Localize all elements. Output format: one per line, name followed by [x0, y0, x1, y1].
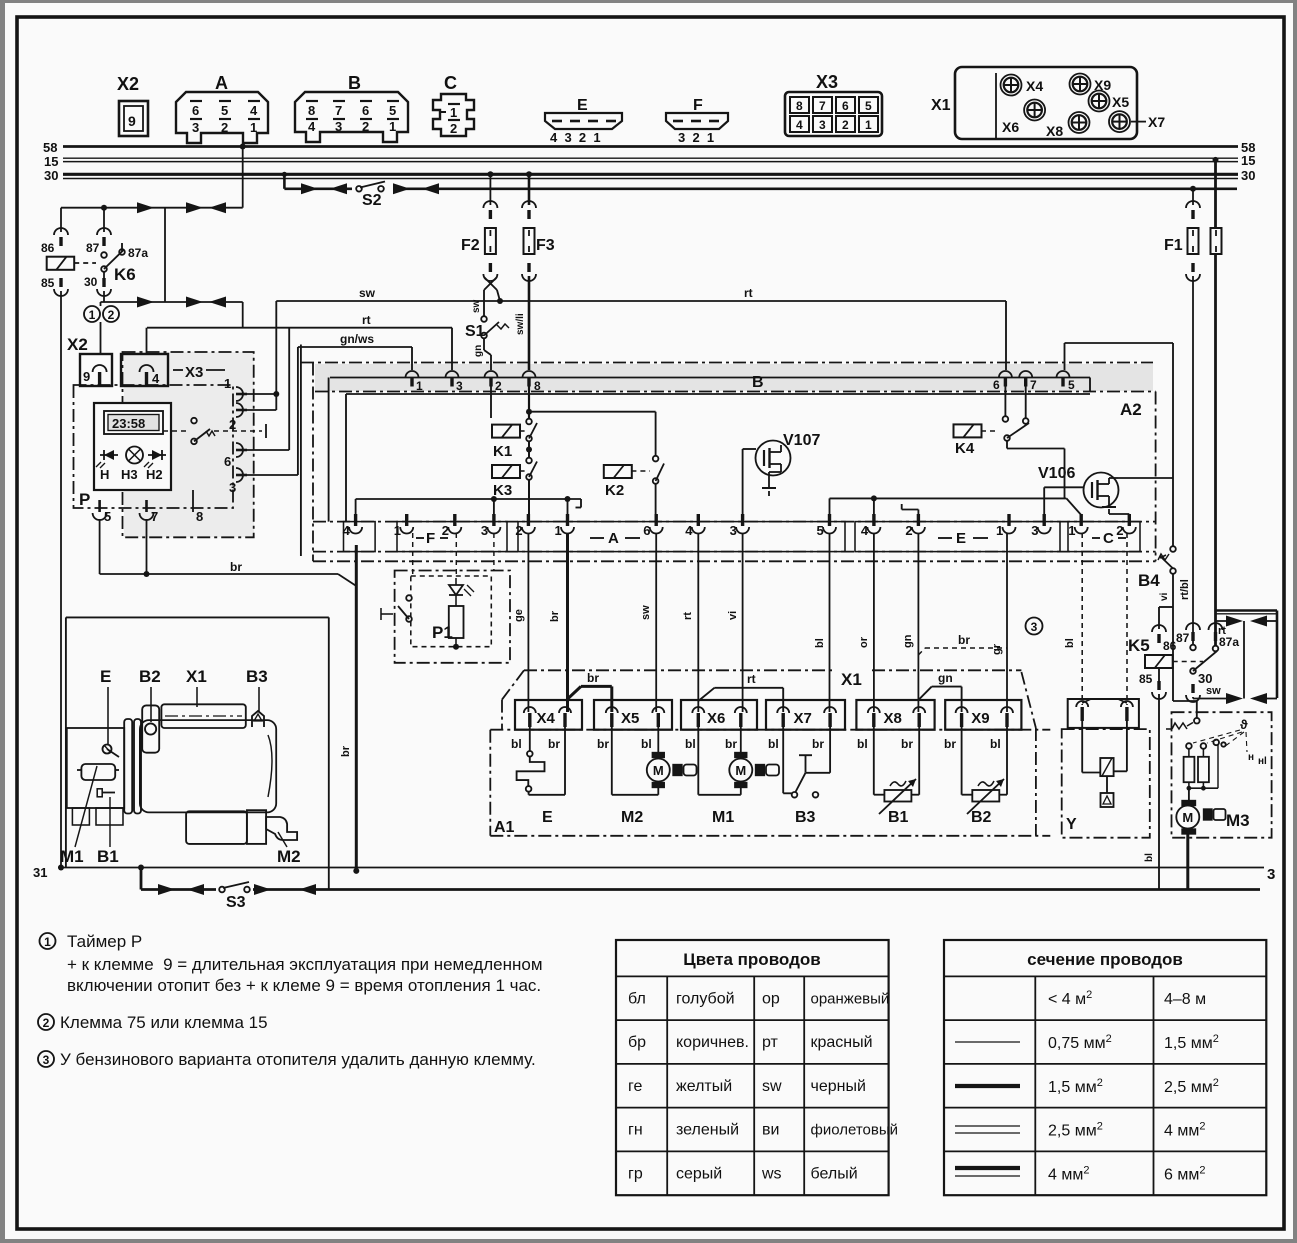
heater element E (A1): [529, 727, 531, 751]
svg-text:3 2 1: 3 2 1: [678, 130, 714, 145]
svg-text:голубой: голубой: [676, 990, 735, 1007]
row pin 4 at 355.6: [354, 514, 357, 526]
svg-text:gn: gn: [938, 671, 953, 685]
svg-text:15: 15: [44, 154, 58, 169]
svg-text:3: 3: [1031, 620, 1038, 634]
svg-text:F2: F2: [461, 237, 480, 254]
svg-text:4: 4: [861, 523, 869, 538]
wire sw A.6 to X5.2: [655, 533, 657, 712]
svg-text:X6: X6: [707, 710, 725, 727]
svg-text:У бензинового варианта отопите: У бензинового варианта отопителя удалить…: [60, 1050, 536, 1069]
svg-text:23:58: 23:58: [112, 416, 145, 431]
svg-text:K3: K3: [493, 482, 512, 499]
svg-text:85: 85: [41, 276, 55, 290]
wire br trunk A-pin4 down: [355, 545, 358, 871]
bus 30 bottom thick: [140, 868, 143, 890]
svg-text:1: 1: [224, 376, 231, 391]
svg-text:bl: bl: [990, 737, 1001, 751]
svg-text:гр: гр: [628, 1165, 643, 1182]
svg-text:or: or: [858, 636, 870, 648]
svg-text:фиолетовый: фиолетовый: [811, 1122, 899, 1139]
svg-text:2: 2: [1116, 523, 1123, 538]
svg-text:7: 7: [1030, 378, 1037, 392]
svg-text:A: A: [215, 73, 228, 93]
svg-text:X3: X3: [816, 72, 838, 92]
band bottom dash-dot / A2 top: [315, 391, 1156, 393]
B pin 6: [999, 371, 1012, 378]
wire B.5 up-over: [1064, 343, 1066, 370]
row pin 2 at 454.8: [453, 514, 456, 526]
relay K5 contact: [1186, 623, 1200, 630]
svg-text:br: br: [340, 745, 352, 757]
wire S1 to B.2: [483, 338, 485, 350]
svg-text:br: br: [944, 737, 956, 751]
svg-text:+ к клемме 9 = длительная экс: + к клемме 9 = длительная эксплуатация п…: [67, 955, 543, 974]
svg-text:2: 2: [450, 121, 457, 136]
svg-text:2: 2: [495, 379, 502, 393]
B pin 1: [406, 371, 419, 378]
wire rt/bl F1 to K5.87: [1192, 276, 1194, 644]
svg-text:sw: sw: [359, 286, 376, 300]
svg-text:красный: красный: [811, 1034, 873, 1051]
svg-text:бр: бр: [628, 1034, 646, 1051]
svg-text:желтый: желтый: [676, 1078, 732, 1095]
svg-text:3: 3: [456, 379, 463, 393]
svg-text:X1: X1: [931, 97, 951, 114]
pin X9: [1070, 74, 1091, 95]
relay K6 coil: [60, 208, 62, 232]
svg-text:нl: нl: [1258, 756, 1267, 767]
svg-text:X1: X1: [841, 670, 862, 689]
resistor B1: [873, 727, 875, 795]
svg-text:6: 6: [362, 103, 369, 118]
svg-text:C: C: [444, 73, 457, 93]
row pin 3 at 493.9: [492, 514, 495, 526]
svg-text:0,75 мм2: 0,75 мм2: [1048, 1033, 1112, 1052]
heater E plug: [103, 745, 112, 754]
svg-text:1: 1: [394, 523, 401, 538]
svg-text:br: br: [812, 737, 824, 751]
heater muffler: [186, 811, 247, 844]
svg-text:vi: vi: [1159, 592, 1170, 601]
timer switch: [163, 430, 186, 432]
svg-text:X5: X5: [1112, 94, 1129, 110]
svg-text:6 мм2: 6 мм2: [1164, 1164, 1205, 1183]
lamp H3: [126, 447, 143, 464]
lamp H (diode): [104, 450, 114, 460]
inner solid boxes: [300, 345, 302, 557]
svg-text:br: br: [901, 737, 913, 751]
svg-text:86: 86: [1163, 639, 1177, 653]
row pin 3 at 742.6: [741, 514, 744, 526]
bus 15: [63, 157, 1238, 159]
svg-text:Таймер Р: Таймер Р: [67, 932, 142, 951]
note marker 2: [103, 306, 119, 322]
svg-text:ге: ге: [628, 1078, 642, 1095]
svg-text:бл: бл: [628, 990, 646, 1007]
svg-text:C: C: [1103, 530, 1114, 547]
row group boxes: [344, 522, 376, 552]
row pin 2 at 918.4: [917, 514, 920, 526]
wire or E.4 to X8.1: [873, 533, 875, 712]
sensor B3: [829, 727, 831, 773]
B pin 5: [1057, 371, 1070, 378]
wire V106 source to C.2: [1109, 513, 1129, 515]
svg-text:3: 3: [1031, 523, 1038, 538]
svg-text:6: 6: [224, 454, 231, 469]
wire 15 down right side: [1213, 157, 1219, 163]
svg-text:bl: bl: [768, 737, 779, 751]
fuse F2: [487, 171, 493, 177]
M3 thermal switch: [1166, 728, 1172, 730]
wire E.2 stub hook: [917, 510, 919, 516]
svg-text:X7: X7: [1148, 114, 1165, 130]
B pin 2: [485, 371, 498, 378]
note marker 3: [1026, 618, 1043, 635]
relay K1 contact: [526, 419, 532, 425]
row pin 4 at 873.9: [872, 514, 875, 526]
svg-text:2,5 мм2: 2,5 мм2: [1048, 1121, 1103, 1140]
svg-text:K4: K4: [955, 440, 975, 457]
svg-text:2,5 мм2: 2,5 мм2: [1164, 1077, 1219, 1096]
svg-text:X1: X1: [186, 667, 207, 686]
svg-text:A1: A1: [494, 819, 515, 836]
svg-text:4: 4: [796, 118, 803, 132]
svg-text:A2: A2: [1120, 400, 1142, 419]
connector X7: [766, 700, 845, 730]
svg-text:X9: X9: [971, 710, 989, 727]
connector X8: [856, 700, 934, 730]
switch S3: [219, 887, 225, 893]
row pin 2 at 1129.3: [1128, 514, 1131, 526]
svg-text:коричнев.: коричнев.: [676, 1034, 749, 1051]
svg-text:2: 2: [43, 1016, 50, 1030]
relay K5: [1152, 625, 1166, 632]
svg-text:X2: X2: [117, 74, 139, 94]
row pin 1 at 1009: [1007, 514, 1010, 526]
wire rt A.4 to X6.1/X7.1: [697, 533, 699, 712]
svg-text:2: 2: [362, 119, 369, 134]
svg-text:B1: B1: [888, 809, 909, 826]
svg-text:3: 3: [819, 118, 826, 132]
fuse F3: [526, 171, 532, 177]
svg-text:S1: S1: [465, 323, 485, 340]
riser B.1: [411, 347, 413, 370]
svg-text:rt: rt: [682, 612, 694, 620]
svg-text:P: P: [79, 490, 90, 509]
connector X3 boundary (dash-dot): [123, 352, 254, 537]
row pin 2 at 528.4: [527, 514, 530, 526]
svg-text:ор: ор: [762, 990, 780, 1007]
svg-text:ws: ws: [761, 1165, 782, 1182]
wire K5-30 sw to right: [1193, 698, 1236, 700]
svg-text:br: br: [548, 737, 560, 751]
svg-text:2: 2: [229, 417, 236, 432]
connector X3 top grid: [785, 92, 882, 136]
svg-text:F3: F3: [536, 237, 555, 254]
svg-text:K6: K6: [114, 265, 136, 284]
connector X6: [681, 700, 757, 730]
svg-text:bl: bl: [1144, 853, 1155, 862]
svg-text:bl: bl: [685, 737, 696, 751]
connector bracket right: [1243, 621, 1245, 699]
riser B.3: [451, 328, 453, 370]
svg-text:X6: X6: [1002, 119, 1019, 135]
svg-text:F: F: [426, 530, 435, 547]
svg-text:5: 5: [1068, 378, 1075, 392]
connector X2 (timer): [80, 354, 112, 386]
wire E.5 to C.1: [829, 498, 831, 515]
svg-text:5: 5: [389, 103, 396, 118]
connector X1 top right: [955, 67, 1137, 139]
pin X7: [1109, 111, 1130, 132]
svg-text:1: 1: [1068, 523, 1075, 538]
svg-text:1: 1: [389, 119, 396, 134]
heater left housing: [67, 728, 124, 808]
timer display: [104, 411, 163, 434]
svg-text:2: 2: [842, 118, 849, 132]
table wire sections: [944, 940, 1266, 1195]
svg-text:A: A: [608, 530, 619, 547]
svg-text:rt: rt: [362, 313, 371, 327]
pin X5: [1089, 91, 1110, 112]
svg-text:3: 3: [730, 523, 737, 538]
svg-text:гн: гн: [628, 1122, 643, 1139]
pin X4: [1001, 75, 1022, 96]
M3 resistors: [1186, 743, 1192, 749]
timer P body: [94, 403, 171, 490]
row pin 6 at 656.2: [655, 514, 658, 526]
connector X3 pin4 box: [121, 354, 168, 386]
wire ge A.2 to X4.1: [527, 533, 529, 712]
connector X9: [945, 700, 1021, 730]
svg-text:1: 1: [44, 935, 51, 949]
svg-text:B1: B1: [97, 847, 119, 866]
wire K6-85 down to bus 31: [60, 291, 62, 867]
svg-text:M: M: [735, 763, 746, 778]
svg-text:B4: B4: [1138, 571, 1160, 590]
svg-text:31: 31: [33, 865, 47, 880]
svg-text:7: 7: [335, 103, 342, 118]
wire B.8/K1/K3 chain: [528, 387, 530, 419]
indicator unit P1 boundary: [395, 571, 510, 663]
pin X6: [1024, 100, 1045, 121]
row X4..X9 bottom dash-dot: [490, 729, 1050, 731]
wire M3 motor to bottom bus: [1186, 834, 1189, 890]
wire A.4 link F.3 A.1: [355, 499, 357, 515]
row pin 4 at 698.3: [697, 514, 700, 526]
svg-text:58: 58: [43, 140, 57, 155]
heater exhaust M2: [266, 817, 297, 840]
svg-text:87: 87: [1176, 631, 1190, 645]
svg-text:bl: bl: [511, 737, 522, 751]
wire br A.1 to X4.2/X5.1: [566, 533, 569, 712]
motor M2: [657, 727, 659, 757]
svg-text:4: 4: [685, 523, 693, 538]
svg-text:ви: ви: [762, 1122, 779, 1139]
svg-text:gn: gn: [902, 634, 914, 648]
svg-text:M: M: [653, 763, 664, 778]
svg-text:2: 2: [221, 120, 228, 135]
svg-text:2: 2: [515, 523, 522, 538]
svg-text:gn/ws: gn/ws: [340, 332, 374, 346]
svg-text:B3: B3: [246, 667, 268, 686]
svg-text:1,5 мм2: 1,5 мм2: [1164, 1033, 1219, 1052]
svg-text:8: 8: [796, 99, 803, 113]
wire F2 branches (X): [484, 277, 497, 290]
wire C.2 to Y (dashed): [1126, 533, 1128, 705]
svg-text:8: 8: [308, 103, 315, 118]
svg-text:86: 86: [41, 241, 55, 255]
valve unit Y boundary: [1062, 729, 1150, 838]
svg-text:X4: X4: [1026, 78, 1043, 94]
svg-text:X8: X8: [884, 710, 902, 727]
svg-text:5: 5: [865, 99, 872, 113]
row pin 5 at 829.5: [828, 514, 831, 526]
svg-text:1: 1: [89, 308, 96, 322]
svg-text:8: 8: [534, 379, 541, 393]
B pin 8: [523, 371, 536, 378]
svg-text:включении отопит без + к клеме: включении отопит без + к клеме 9 = время…: [67, 976, 541, 995]
relay K3 contact: [526, 458, 532, 464]
wire gr E.1 to X9.2: [1006, 533, 1008, 712]
svg-text:сечение проводов: сечение проводов: [1027, 950, 1183, 969]
svg-text:7: 7: [819, 99, 826, 113]
svg-text:H: H: [100, 467, 109, 482]
wire bl C.1 to Y (dashed): [1081, 533, 1083, 705]
switch B4: [1170, 546, 1176, 552]
svg-text:rt: rt: [747, 672, 756, 686]
svg-text:8: 8: [196, 509, 203, 524]
fuse F1: [1190, 186, 1196, 192]
svg-text:6: 6: [842, 99, 849, 113]
connector F top: [666, 113, 728, 129]
svg-text:bl: bl: [1064, 638, 1076, 648]
heater main body: [140, 720, 276, 812]
svg-text:3: 3: [481, 523, 488, 538]
svg-text:2: 2: [108, 308, 115, 322]
svg-text:ϑ: ϑ: [1240, 717, 1248, 732]
svg-text:sw: sw: [1206, 685, 1221, 697]
svg-text:серый: серый: [676, 1165, 722, 1182]
transistor V106: [1084, 473, 1119, 508]
svg-text:br: br: [230, 560, 242, 574]
wire sw/li F3 to B.8: [528, 276, 531, 370]
svg-text:1,5 мм2: 1,5 мм2: [1048, 1077, 1103, 1096]
relay K6 contact: [101, 205, 107, 211]
wire X2-9 riser: [100, 302, 102, 306]
svg-text:87a: 87a: [128, 246, 148, 260]
svg-text:rt/bl: rt/bl: [1179, 579, 1191, 600]
wire bl E.5 to X7.2: [829, 533, 831, 712]
motor M1: [740, 727, 742, 757]
wire V106 drain to B4 node: [1118, 477, 1173, 479]
svg-text:B: B: [752, 374, 764, 391]
A2 boundary dash-dot: [312, 363, 314, 562]
P1 switch: [381, 613, 393, 615]
svg-text:3: 3: [1267, 866, 1275, 883]
bus 30: [63, 173, 1238, 176]
svg-text:30: 30: [44, 168, 58, 183]
table wire colours: [616, 940, 889, 1195]
svg-text:E: E: [577, 97, 588, 114]
svg-text:85: 85: [1139, 672, 1153, 686]
svg-text:4 мм2: 4 мм2: [1048, 1164, 1089, 1183]
motor M3: [1188, 788, 1190, 805]
svg-text:X8: X8: [1046, 123, 1063, 139]
Y solenoid: [1081, 721, 1083, 773]
svg-text:1: 1: [450, 105, 457, 120]
wire V106 gate to E.3: [1044, 486, 1083, 488]
resistor B2: [961, 727, 963, 795]
svg-text:B2: B2: [971, 809, 992, 826]
svg-text:4: 4: [250, 103, 258, 118]
wire K5-85 bl to bottom: [1158, 668, 1160, 681]
svg-text:bl: bl: [814, 638, 826, 648]
note 2: [38, 1014, 54, 1030]
note marker 1: [84, 306, 100, 322]
connector C top: [433, 94, 474, 136]
wire K1 to K2 contact: [529, 411, 656, 413]
wire B4 vi down: [1172, 574, 1174, 702]
svg-text:br: br: [958, 633, 970, 647]
svg-text:br: br: [597, 737, 609, 751]
svg-text:E: E: [542, 809, 553, 826]
svg-text:5: 5: [817, 523, 824, 538]
note 3: [38, 1051, 54, 1067]
wire gn/ws (to X3.3 and B.1): [243, 474, 298, 476]
svg-text:B2: B2: [139, 667, 161, 686]
svg-text:gn: gn: [473, 345, 484, 357]
svg-text:rt: rt: [744, 286, 753, 300]
transistor V107: [756, 441, 791, 476]
svg-text:1: 1: [996, 523, 1003, 538]
svg-text:Y: Y: [1066, 816, 1077, 833]
wire vi A.3 to X6.2: [742, 533, 744, 712]
switch S2: [356, 186, 362, 192]
svg-text:br: br: [587, 671, 599, 685]
svg-text:30: 30: [1241, 168, 1255, 183]
svg-text:6: 6: [643, 523, 650, 538]
svg-text:87: 87: [86, 241, 100, 255]
relay K3 coil: [492, 465, 520, 478]
svg-text:F1: F1: [1164, 237, 1183, 254]
B pin 3: [446, 371, 459, 378]
svg-text:н: н: [1248, 752, 1254, 763]
group box X1 (dash-dot with bevels): [502, 670, 524, 699]
svg-text:M1: M1: [60, 847, 84, 866]
svg-text:E: E: [956, 530, 966, 547]
svg-text:< 4 м2: < 4 м2: [1048, 989, 1092, 1008]
svg-text:X4: X4: [537, 710, 556, 727]
relay K2 contact: [653, 456, 659, 462]
svg-text:K5: K5: [1128, 636, 1150, 655]
B pin 7: [1019, 371, 1032, 378]
svg-text:4 мм2: 4 мм2: [1164, 1121, 1205, 1140]
note 1: [40, 933, 56, 949]
Y connector shell: [1068, 699, 1139, 728]
svg-text:3: 3: [43, 1053, 50, 1067]
relay K2 coil: [604, 465, 632, 478]
connector B top: [295, 92, 408, 142]
svg-text:H3: H3: [121, 467, 138, 482]
svg-text:1: 1: [416, 379, 423, 393]
wire br dashed jog (note 3): [918, 648, 925, 655]
wire timer br to trunk: [99, 519, 101, 574]
svg-text:Клемма 75 или клемма 15: Клемма 75 или клемма 15: [60, 1013, 268, 1032]
heater unit M3 boundary: [1172, 712, 1272, 838]
svg-text:1: 1: [865, 118, 872, 132]
